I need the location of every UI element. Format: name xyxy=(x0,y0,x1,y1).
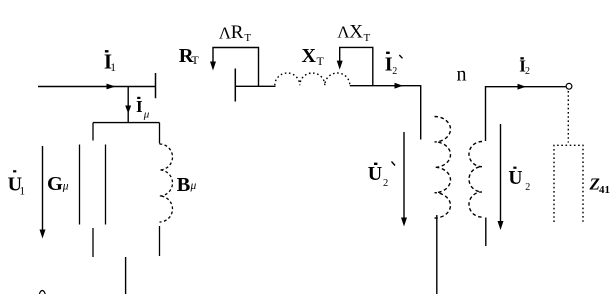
label Gmu xyxy=(47,173,69,195)
bracket dR_T with down arrow xyxy=(210,48,259,87)
svg-text:μ: μ xyxy=(143,109,150,121)
svg-text:I: I xyxy=(136,97,143,116)
voltage label U2 xyxy=(508,167,530,193)
wire: transformer primary bottom lead xyxy=(436,215,438,294)
svg-text:n: n xyxy=(457,64,467,86)
transformer secondary coil xyxy=(469,142,482,218)
wire: transformer secondary bottom lead xyxy=(485,218,487,247)
current label I1 xyxy=(104,50,116,75)
inductor X_T coil xyxy=(275,73,350,85)
load Zn dashed box (open bottom) xyxy=(554,145,583,222)
glyph 0 (cropped at bottom edge) xyxy=(39,291,45,294)
svg-text:μ: μ xyxy=(190,180,197,192)
wire: shunt bottom stub xyxy=(125,257,127,294)
svg-text:X: X xyxy=(302,45,317,67)
svg-text:2: 2 xyxy=(392,66,397,77)
svg-text:2: 2 xyxy=(383,178,388,189)
wire: I2' with arrow and drop to transformer xyxy=(350,83,421,140)
svg-text:G: G xyxy=(47,173,63,195)
conductance Gmu (box sides and leads) xyxy=(80,123,106,257)
terminal tick (input break) xyxy=(155,73,157,98)
terminal circle (output) xyxy=(566,83,572,89)
dotted lead from terminal to load xyxy=(567,91,569,143)
svg-text:1: 1 xyxy=(110,62,116,74)
node bus (shunt branch top) xyxy=(93,122,160,124)
label Zn xyxy=(589,175,611,197)
svg-text:μ: μ xyxy=(62,181,69,193)
voltage label U2' xyxy=(368,162,395,190)
svg-text:B: B xyxy=(177,174,191,196)
bracket dX_T with down arrow xyxy=(337,47,373,85)
svg-text:T: T xyxy=(364,32,371,44)
svg-text:R: R xyxy=(231,22,244,43)
svg-text:U: U xyxy=(368,163,382,185)
svg-text:T: T xyxy=(191,53,199,67)
terminal tick at R_T xyxy=(234,69,236,102)
label n (turns ratio) xyxy=(457,64,467,86)
svg-text:U: U xyxy=(508,168,522,189)
current label I2' xyxy=(385,52,403,77)
value label dR_T xyxy=(219,22,252,44)
voltage arrow U2' xyxy=(401,132,407,227)
label X_T xyxy=(302,45,325,68)
wire: R_T to X_T xyxy=(235,85,275,87)
svg-text:T: T xyxy=(317,54,325,68)
current label I2 xyxy=(519,56,530,77)
wire: Imu branch drop with arrow xyxy=(125,87,131,123)
voltage arrow U2 xyxy=(498,124,504,230)
susceptance Bmu coil and leads xyxy=(160,123,173,256)
current label Imu xyxy=(136,97,150,121)
voltage arrow U1 xyxy=(40,146,46,239)
transformer primary coil xyxy=(435,117,451,219)
svg-text:41: 41 xyxy=(599,184,610,196)
voltage label U1 xyxy=(8,170,26,197)
value label dX_T xyxy=(337,21,370,44)
svg-text:2: 2 xyxy=(525,182,530,193)
wire: secondary top with I2 arrow xyxy=(486,84,566,141)
label R_T xyxy=(179,45,200,67)
svg-text:2: 2 xyxy=(525,66,530,77)
wire: primary input with I1 current arrow xyxy=(38,84,156,90)
svg-text:1: 1 xyxy=(19,186,25,198)
svg-text:T: T xyxy=(244,32,251,44)
label Bmu xyxy=(177,174,197,196)
svg-text:X: X xyxy=(349,21,363,42)
